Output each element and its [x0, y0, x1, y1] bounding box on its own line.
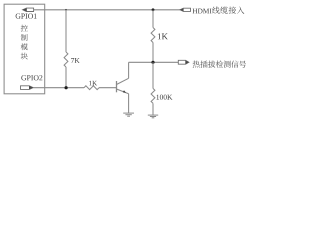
transistor Q1 NPN [117, 78, 129, 93]
ground at emitter [123, 113, 134, 116]
wire GPIO1 to HDMI [34, 9, 180, 11]
label 7K [71, 58, 79, 63]
control module box U1 [4, 4, 45, 94]
junction at 7K top [65, 9, 67, 11]
resistor R-7K [64, 52, 68, 67]
wire 7K to GPIO2 line [65, 67, 67, 88]
wire emitter to ground [128, 94, 130, 113]
junction at 7K bottom [65, 86, 68, 89]
label 1K pullup [158, 33, 168, 39]
label 热插拔检测信号 [193, 61, 200, 68]
junction at rail [151, 61, 154, 64]
wire base resistor to transistor [99, 87, 116, 89]
label GPIO1 [16, 14, 37, 19]
label 控制模块 (control module) vertical text [21, 25, 28, 32]
connector HDMI cable input [180, 8, 191, 11]
label 100K [156, 95, 172, 100]
wire 7K branch top [65, 10, 67, 52]
wire 100K bottom [152, 103, 154, 115]
resistor R-100K [151, 88, 155, 103]
resistor R-1K pullup [151, 28, 155, 43]
pin GPIO2 connector [21, 86, 34, 90]
wire GPIO2 to base resistor [33, 87, 84, 89]
wire 1K pullup bottom [152, 43, 154, 63]
wire collector [128, 62, 130, 78]
wire 100K top [152, 62, 154, 88]
label 1K base [89, 81, 97, 86]
connector hot-plug detect signal [178, 60, 189, 64]
resistor R-1K base [84, 86, 99, 90]
wire 1K pullup top [152, 10, 154, 28]
wire collector rail to hotplug connector [129, 61, 179, 63]
label HDMI线缆接入 [193, 9, 212, 14]
label GPIO2 [21, 75, 42, 80]
junction at 1K top [152, 8, 155, 11]
ground at 100K [148, 115, 158, 118]
pin GPIO1 connector [23, 8, 34, 11]
